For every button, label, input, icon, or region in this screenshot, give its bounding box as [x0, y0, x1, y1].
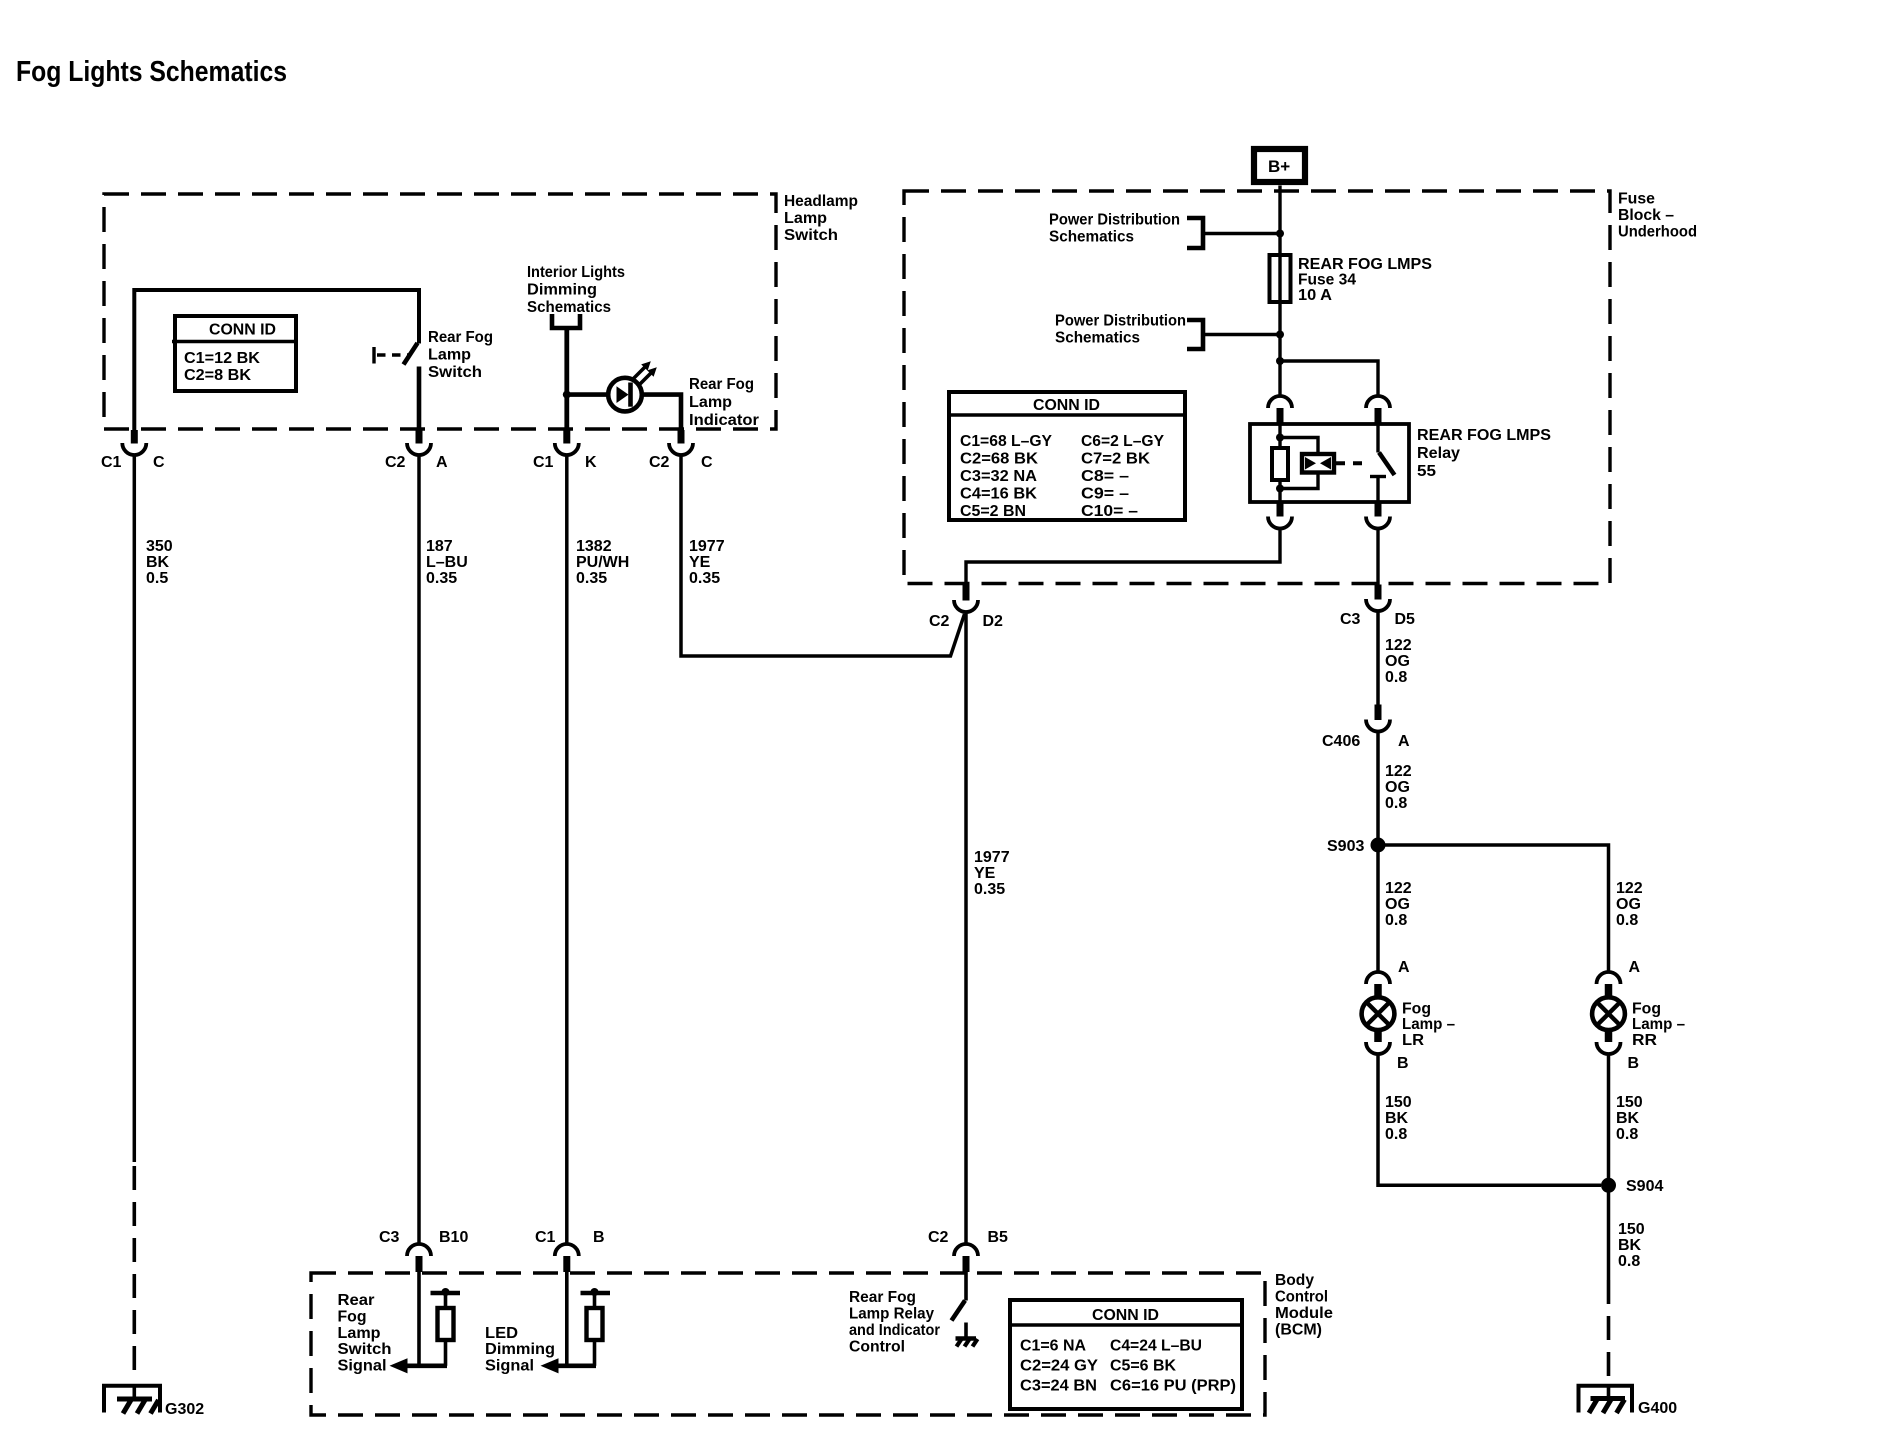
svg-text:Interior Lights: Interior Lights [527, 264, 625, 281]
svg-text:Fuse 34: Fuse 34 [1298, 272, 1356, 289]
wire: junction to LED anode [567, 392, 609, 397]
connector C2 pin C (headlamp switch, indicator) [649, 430, 713, 471]
svg-text:C3: C3 [379, 1229, 400, 1246]
svg-text:Schematics: Schematics [1055, 330, 1140, 347]
svg-text:C1=6 NA: C1=6 NA [1020, 1338, 1086, 1355]
svg-text:C9= –: C9= – [1081, 486, 1129, 503]
svg-text:1382: 1382 [576, 538, 612, 555]
svg-text:C8= –: C8= – [1081, 468, 1129, 485]
wire label: 350 BK 0.5 [146, 538, 173, 587]
svg-text:S904: S904 [1626, 1178, 1663, 1195]
connector C1 pin C (headlamp switch) [101, 430, 165, 471]
label: REAR FOG LMPS Relay 55 [1417, 427, 1551, 480]
svg-text:Rear Fog: Rear Fog [689, 376, 754, 393]
svg-text:122: 122 [1385, 637, 1412, 654]
svg-text:YE: YE [974, 865, 996, 882]
svg-text:Fog: Fog [1402, 1001, 1431, 1018]
wire: 1977 YE from indicator to D2 join [681, 455, 965, 657]
svg-text:REAR FOG LMPS: REAR FOG LMPS [1417, 427, 1551, 444]
svg-text:B5: B5 [988, 1229, 1009, 1246]
svg-text:D5: D5 [1395, 611, 1416, 628]
svg-text:CONN ID: CONN ID [209, 322, 276, 339]
svg-text:BK: BK [1616, 1110, 1640, 1127]
svg-text:55: 55 [1417, 463, 1436, 480]
svg-text:0.8: 0.8 [1385, 1126, 1407, 1143]
svg-text:350: 350 [146, 538, 173, 555]
svg-text:C3=24 BN: C3=24 BN [1020, 1378, 1097, 1395]
wire: relay coil return (down, left, down) [966, 529, 1280, 586]
svg-text:A: A [1398, 733, 1410, 750]
svg-text:REAR FOG LMPS: REAR FOG LMPS [1298, 256, 1432, 273]
svg-text:C3: C3 [1340, 611, 1361, 628]
connector C3 pin B10 (BCM) [379, 1229, 468, 1272]
svg-text:Lamp Relay: Lamp Relay [849, 1306, 934, 1323]
wire label: 1977 YE 0.35 [689, 538, 725, 587]
node: junction dot (relay branch) [1276, 357, 1284, 365]
wire: branch to relay switch contact [1280, 361, 1378, 397]
label: Headlamp Lamp Switch [784, 193, 858, 244]
svg-text:Underhood: Underhood [1618, 224, 1697, 241]
wire label: 122 OG 0.8 (right branch) [1616, 880, 1643, 929]
svg-text:C2=8 BK: C2=8 BK [184, 367, 251, 384]
off-page bracket: power distribution (lower) [1187, 320, 1203, 349]
svg-text:122: 122 [1385, 880, 1412, 897]
table: CONN ID (fuse block) [949, 392, 1185, 520]
connector C406 pin A [1322, 705, 1410, 751]
svg-text:Relay: Relay [1417, 445, 1460, 462]
svg-text:B10: B10 [439, 1229, 468, 1246]
lamp: Fog Lamp - LR [1362, 997, 1395, 1030]
connector C1 pin B (BCM) [535, 1229, 605, 1272]
wire label: 150 BK 0.8 (left) [1385, 1094, 1412, 1143]
label: Interior Lights Dimming Schematics [527, 264, 625, 316]
wire: horizontal bus inside headlamp box [134, 288, 419, 292]
svg-text:D2: D2 [983, 613, 1004, 630]
svg-text:0.35: 0.35 [974, 881, 1005, 898]
svg-text:Block –: Block – [1618, 207, 1674, 224]
svg-text:OG: OG [1385, 896, 1410, 913]
svg-text:0.8: 0.8 [1385, 912, 1407, 929]
dashed box: Headlamp Lamp Switch [104, 194, 776, 429]
svg-text:Body: Body [1275, 1272, 1314, 1289]
ground G302 [104, 1385, 204, 1418]
svg-text:B: B [1397, 1055, 1409, 1072]
lamp: Fog Lamp - RR [1592, 997, 1625, 1030]
svg-text:C2=24 GY: C2=24 GY [1020, 1358, 1098, 1375]
label: REAR FOG LMPS Fuse 34 10 A [1298, 256, 1432, 304]
connector pin A (fog lamp LR) [1366, 959, 1410, 998]
svg-text:C1: C1 [533, 454, 554, 471]
svg-text:C406: C406 [1322, 733, 1360, 750]
svg-text:187: 187 [426, 538, 453, 555]
svg-text:C4=24 L–BU: C4=24 L–BU [1110, 1338, 1202, 1355]
svg-text:L–BU: L–BU [426, 554, 468, 571]
svg-text:(BCM): (BCM) [1275, 1322, 1322, 1339]
wire: 350 BK dashed section to ground [133, 1166, 137, 1381]
table: CONN ID (BCM) [1010, 1300, 1242, 1409]
svg-text:OG: OG [1385, 653, 1410, 670]
svg-text:0.5: 0.5 [146, 570, 168, 587]
wire: bracket to B+ feed (lower) [1203, 333, 1280, 336]
svg-text:Lamp –: Lamp – [1402, 1016, 1455, 1033]
connector pin B (fog lamp LR) [1366, 1030, 1409, 1073]
node: junction dot (lower tap) [1276, 331, 1284, 339]
svg-text:Lamp: Lamp [338, 1325, 381, 1342]
dashed box: Body Control Module (BCM) [311, 1273, 1265, 1415]
svg-text:LED: LED [485, 1325, 518, 1342]
svg-text:CONN ID: CONN ID [1033, 397, 1100, 414]
svg-text:C4=16 BK: C4=16 BK [960, 486, 1037, 503]
connector: relay coil terminal (top left) [1268, 396, 1292, 424]
wire: left drop to C1 pin C [132, 288, 136, 431]
svg-text:C10= –: C10= – [1081, 503, 1138, 520]
svg-text:0.8: 0.8 [1618, 1253, 1640, 1270]
svg-text:Switch: Switch [428, 364, 482, 381]
svg-text:Schematics: Schematics [527, 299, 611, 316]
svg-text:A: A [1398, 959, 1410, 976]
off-page bracket: interior lights dimming feed [552, 314, 580, 328]
wire: 1977 YE from D2 to BCM B5 [964, 612, 968, 1245]
connector C2 pin B5 (BCM) [928, 1229, 1008, 1272]
svg-text:Lamp –: Lamp – [1632, 1016, 1685, 1033]
wire: RR lamp ground to S904 [1607, 1054, 1611, 1280]
ground: BCM internal chassis ground [956, 1323, 978, 1347]
svg-text:Indicator: Indicator [689, 412, 759, 429]
node: junction dot at LED tap [563, 391, 571, 399]
svg-text:BK: BK [146, 554, 170, 571]
svg-text:B+: B+ [1268, 157, 1290, 176]
svg-text:0.35: 0.35 [426, 570, 457, 587]
wire: S903 branch to right fog lamp [1378, 845, 1609, 973]
svg-text:10 A: 10 A [1298, 287, 1332, 304]
label: LED Dimming Signal [485, 1325, 555, 1375]
svg-text:BK: BK [1618, 1237, 1642, 1254]
svg-text:C: C [153, 454, 165, 471]
svg-text:LR: LR [1402, 1032, 1424, 1049]
table: CONN ID (headlamp switch) [172, 316, 297, 391]
svg-text:C2=68 BK: C2=68 BK [960, 451, 1038, 468]
svg-text:Lamp: Lamp [784, 210, 827, 227]
wire: 187 L-BU down to BCM [417, 455, 421, 1245]
svg-text:122: 122 [1616, 880, 1643, 897]
wire label: 1382 PU/WH 0.35 [576, 538, 629, 587]
svg-text:OG: OG [1385, 779, 1410, 796]
svg-text:150: 150 [1616, 1094, 1643, 1111]
label: Rear Fog Lamp Switch Signal [338, 1292, 392, 1375]
off-page bracket: power distribution (upper) [1187, 218, 1203, 248]
svg-text:C5=2 BN: C5=2 BN [960, 503, 1026, 520]
wire: dimming feed drop to LED node [564, 328, 569, 431]
svg-text:Schematics: Schematics [1049, 229, 1134, 246]
node B+ [1254, 149, 1305, 182]
svg-text:Power Distribution: Power Distribution [1055, 313, 1186, 330]
svg-text:Fog Lights Schematics: Fog Lights Schematics [16, 56, 287, 88]
connector C2 pin D2 (underhood to body) [929, 585, 1003, 631]
svg-text:1977: 1977 [689, 538, 725, 555]
svg-text:Headlamp: Headlamp [784, 193, 858, 210]
wire label: 122 OG 0.8 (left branch) [1385, 880, 1412, 929]
wire: B+ feed down to relay [1278, 186, 1281, 397]
svg-text:C1: C1 [101, 454, 122, 471]
svg-text:0.8: 0.8 [1385, 795, 1407, 812]
svg-text:0.35: 0.35 [576, 570, 607, 587]
wire: bracket to B+ feed (upper) [1203, 232, 1280, 235]
wire label: 1977 YE 0.35 (relay control) [974, 849, 1010, 898]
wire: 350 BK to G302 (solid part) [133, 455, 137, 1163]
svg-text:B: B [593, 1229, 605, 1246]
svg-text:Fog: Fog [338, 1308, 367, 1325]
wire label: 122 OG 0.8 (above S903) [1385, 763, 1412, 812]
svg-text:Switch: Switch [338, 1341, 392, 1358]
wire: relay output to D5 [1376, 529, 1379, 586]
wire label: 150 BK 0.8 (below S904) [1618, 1221, 1645, 1270]
label: Rear Fog Lamp Relay and Indicator Control [849, 1289, 940, 1356]
dashed box: Fuse Block - Underhood [904, 191, 1610, 584]
svg-text:C2: C2 [385, 454, 406, 471]
svg-text:S903: S903 [1327, 838, 1364, 855]
svg-text:C1=68 L–GY: C1=68 L–GY [960, 433, 1052, 450]
wire label: 122 OG 0.8 (above C406) [1385, 637, 1412, 686]
svg-text:C7=2 BK: C7=2 BK [1081, 451, 1150, 468]
svg-text:Lamp: Lamp [428, 347, 471, 364]
wire: LR lamp ground to S904 [1378, 1054, 1601, 1185]
svg-text:and Indicator: and Indicator [849, 1322, 940, 1339]
svg-text:Rear: Rear [338, 1292, 375, 1309]
label: Power Distribution Schematics (upper) [1049, 212, 1180, 246]
svg-text:1977: 1977 [974, 849, 1010, 866]
svg-text:RR: RR [1632, 1032, 1657, 1049]
svg-text:C1: C1 [535, 1229, 556, 1246]
svg-text:Fuse: Fuse [1618, 191, 1655, 208]
svg-text:Module: Module [1275, 1305, 1333, 1322]
svg-text:K: K [585, 454, 597, 471]
relay: REAR FOG LMPS Relay 55 [1250, 424, 1409, 502]
svg-text:Lamp: Lamp [689, 394, 732, 411]
wire label: 150 BK 0.8 (right) [1616, 1094, 1643, 1143]
svg-text:Power Distribution: Power Distribution [1049, 212, 1180, 229]
svg-text:Fog: Fog [1632, 1001, 1661, 1018]
node: junction dot (upper tap) [1276, 230, 1284, 238]
wire: 122 OG to S903 [1376, 732, 1380, 973]
svg-text:0.8: 0.8 [1385, 669, 1407, 686]
svg-text:0.8: 0.8 [1616, 1126, 1638, 1143]
connector C1 pin K (headlamp switch) [533, 430, 597, 471]
svg-text:G400: G400 [1638, 1400, 1677, 1417]
connector C3 pin D5 (underhood to body) [1340, 585, 1415, 629]
connector: relay coil terminal (bottom left) [1268, 502, 1292, 529]
svg-text:Dimming: Dimming [527, 282, 597, 299]
connector pin B (fog lamp RR) [1597, 1030, 1640, 1073]
splice S903 [1327, 838, 1386, 856]
svg-text:A: A [436, 454, 448, 471]
svg-text:C2: C2 [928, 1229, 949, 1246]
svg-text:C6=16 PU (PRP): C6=16 PU (PRP) [1110, 1378, 1236, 1395]
ground G400 [1579, 1385, 1678, 1417]
svg-text:C2: C2 [649, 454, 670, 471]
switch: Rear Fog Lamp Switch [374, 288, 419, 431]
svg-text:A: A [1629, 959, 1641, 976]
wire: dashed section to G400 [1607, 1280, 1611, 1384]
BCM input: LED dimming signal (wire, arrow, pull-up resistor R) [541, 1272, 611, 1373]
svg-text:PU/WH: PU/WH [576, 554, 629, 571]
wire label: 187 L-BU 0.35 [426, 538, 468, 587]
svg-text:Signal: Signal [338, 1358, 387, 1375]
svg-text:B: B [1628, 1055, 1640, 1072]
label: Fog Lamp - RR [1632, 1001, 1685, 1050]
label: Body Control Module (BCM) [1275, 1272, 1333, 1339]
svg-text:C3=32 NA: C3=32 NA [960, 468, 1037, 485]
BCM input: rear fog lamp switch signal (wire, arrow, pull-up resistor R) [390, 1272, 461, 1373]
svg-text:Control: Control [849, 1339, 905, 1356]
svg-text:Rear Fog: Rear Fog [428, 329, 493, 346]
svg-text:C6=2 L–GY: C6=2 L–GY [1081, 433, 1164, 450]
wire: 122 OG to C406 [1376, 611, 1380, 706]
label: Fuse Block - Underhood [1618, 191, 1697, 241]
connector: relay output terminal (bottom right) [1366, 502, 1390, 529]
svg-text:Rear Fog: Rear Fog [849, 1289, 916, 1306]
svg-text:OG: OG [1616, 896, 1641, 913]
svg-text:C5=6 BK: C5=6 BK [1110, 1358, 1176, 1375]
label: Rear Fog Lamp Switch [428, 329, 493, 381]
svg-text:150: 150 [1385, 1094, 1412, 1111]
svg-text:BK: BK [1385, 1110, 1409, 1127]
label: Fog Lamp - LR [1402, 1001, 1455, 1050]
svg-text:Switch: Switch [784, 227, 838, 244]
svg-text:122: 122 [1385, 763, 1412, 780]
svg-text:C: C [701, 454, 713, 471]
svg-text:CONN ID: CONN ID [1092, 1307, 1159, 1324]
svg-text:YE: YE [689, 554, 711, 571]
fuse: REAR FOG LMPS Fuse 34 10 A [1270, 255, 1291, 302]
svg-text:C2: C2 [929, 613, 950, 630]
connector pin A (fog lamp RR) [1597, 959, 1641, 998]
label: Rear Fog Lamp Indicator [689, 376, 759, 429]
svg-text:150: 150 [1618, 1221, 1645, 1238]
svg-text:Signal: Signal [485, 1358, 534, 1375]
svg-text:0.35: 0.35 [689, 570, 720, 587]
svg-text:Control: Control [1275, 1289, 1328, 1306]
svg-text:0.8: 0.8 [1616, 912, 1638, 929]
BCM driver: rear fog lamp relay control switch [952, 1272, 967, 1321]
connector: relay switch terminal (top right) [1366, 396, 1390, 424]
splice S904 [1601, 1178, 1663, 1195]
svg-text:C1=12 BK: C1=12 BK [184, 350, 260, 367]
connector C2 pin A (headlamp switch) [385, 430, 448, 471]
svg-text:Dimming: Dimming [485, 1341, 555, 1358]
wire: 1382 PU/WH down to BCM [565, 455, 569, 1245]
LED: Rear Fog Lamp Indicator [608, 361, 657, 411]
svg-text:G302: G302 [165, 1401, 204, 1418]
wire: LED cathode to C2 pin C drop [642, 395, 681, 431]
label: Power Distribution Schematics (lower) [1055, 313, 1186, 347]
